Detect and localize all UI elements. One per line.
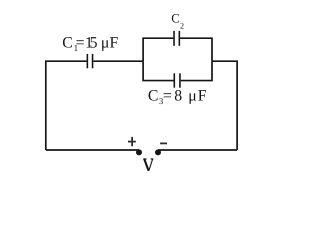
wire: C1 to parallel-section node A: [93, 60, 143, 62]
minus symbol: [160, 142, 167, 144]
capacitor C2: [174, 31, 179, 46]
wire: node B to right vertical, down to bottom-right corner: [212, 61, 237, 150]
wire: bottom right segment to battery - terminal: [158, 149, 237, 151]
wire: top branch left (node A up and right to C2): [143, 38, 173, 61]
wire: bottom branch left (down and right to C3): [143, 61, 173, 80]
wire: left vertical + top segment to C1: [46, 61, 87, 150]
battery terminal dot (-): [155, 149, 161, 155]
svg-text:C3=8μF: C3=8μF: [148, 88, 207, 106]
wire: bottom left segment to battery + terminal: [46, 149, 139, 151]
capacitor C1: [87, 54, 92, 68]
battery terminal dot (+): [136, 149, 142, 155]
label V: [143, 159, 153, 171]
plus symbol: [128, 137, 136, 146]
wire: bottom branch right (C3 to node B): [181, 61, 212, 80]
capacitor C3: [174, 73, 180, 87]
wire: top branch right (C2 to node B): [180, 38, 212, 61]
svg-text:C1=15μF: C1=15μF: [62, 34, 118, 53]
